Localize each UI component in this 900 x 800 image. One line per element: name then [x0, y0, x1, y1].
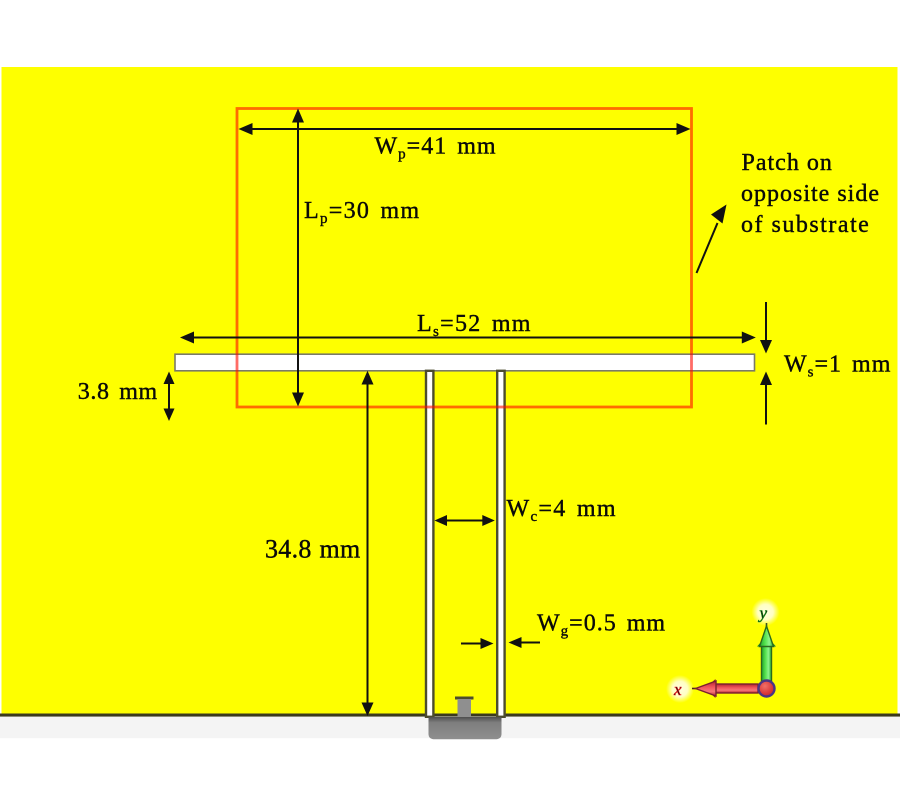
coax pin — [458, 699, 472, 717]
coax pin cap — [455, 697, 474, 700]
table shadow band below board — [0, 717, 900, 739]
dimension Wg right arrow — [509, 637, 541, 648]
ground slot bar (white horizontal strip) — [175, 354, 755, 371]
feed gap right (white vertical strip) — [497, 371, 504, 717]
axis x arrow — [692, 679, 758, 698]
dimension 34.8mm double arrow — [362, 371, 374, 716]
svg-text:Wc=4 mm: Wc=4 mm — [507, 496, 617, 525]
feed gap left (white vertical strip) — [426, 371, 433, 717]
dimension Ws upper arrow — [760, 302, 772, 354]
svg-text:34.8 mm: 34.8 mm — [265, 535, 361, 564]
dimension Wc double arrow — [435, 515, 495, 526]
dimension Ls arrow — [180, 332, 756, 344]
svg-text:x: x — [673, 680, 682, 699]
axis label y halo — [752, 598, 780, 626]
axis origin ball — [759, 681, 775, 697]
leader arrow to patch note — [697, 205, 727, 274]
svg-text:y: y — [758, 604, 768, 623]
svg-text:Ws=1 mm: Ws=1 mm — [784, 351, 891, 380]
dimension Ws lower arrow — [760, 372, 772, 425]
svg-text:of substrate: of substrate — [741, 212, 870, 238]
substrate bottom edge line — [0, 714, 900, 717]
patch outline on opposite side (translucent red rectangle) — [237, 109, 692, 408]
dimension Wg left arrow — [461, 638, 494, 649]
dimension Lp arrow — [292, 109, 304, 407]
svg-text:3.8 mm: 3.8 mm — [78, 379, 158, 405]
svg-text:Patch on: Patch on — [742, 150, 833, 176]
svg-text:Wp=41 mm: Wp=41 mm — [375, 133, 497, 162]
svg-text:Wg=0.5 mm: Wg=0.5 mm — [537, 610, 666, 639]
svg-text:opposite side: opposite side — [741, 181, 880, 207]
axis label x halo — [666, 675, 694, 703]
dimension 3.8mm double arrow — [164, 372, 175, 422]
dimension Wp arrow — [239, 123, 691, 135]
axis y arrow — [757, 623, 776, 684]
